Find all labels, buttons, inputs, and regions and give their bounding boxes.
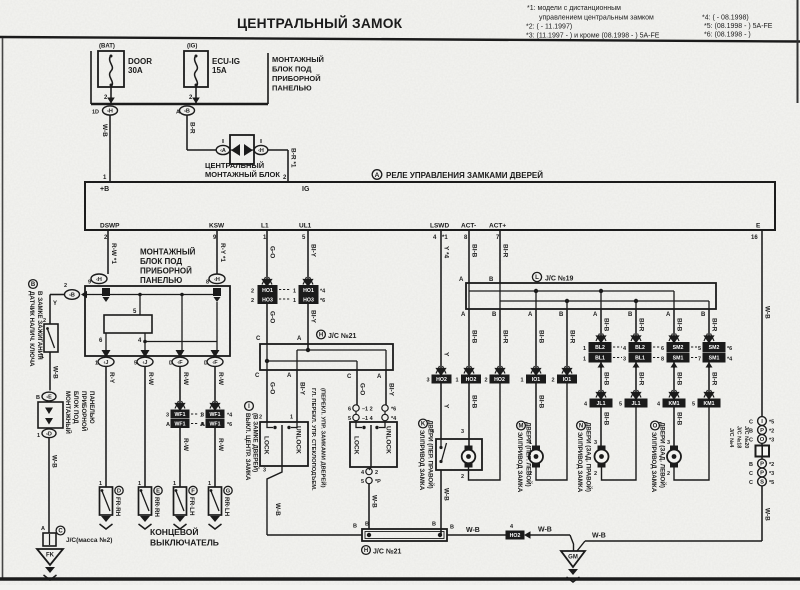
svg-text:Y *4: Y *4 <box>443 246 450 259</box>
svg-text:P: P <box>760 428 764 434</box>
wire W-B from lower jc to HO2 <box>447 534 506 536</box>
svg-text:2: 2 <box>461 474 464 480</box>
svg-text:HO2: HO2 <box>510 533 521 539</box>
junction block relay box <box>85 286 230 356</box>
connector pair SM2/SM1 col3 <box>667 343 689 352</box>
svg-text:C: C <box>749 420 753 426</box>
svg-text:BI-B: BI-B <box>538 330 545 344</box>
svg-text:P: P <box>760 471 764 477</box>
svg-text:ПРИБОРНОЙ: ПРИБОРНОЙ <box>140 267 192 276</box>
svg-text:J/C №4: J/C №4 <box>728 428 734 448</box>
svg-text:1: 1 <box>583 346 586 352</box>
svg-text:*4: ( - 08.1998): *4: ( - 08.1998) <box>702 15 749 22</box>
svg-text:3: 3 <box>427 378 430 384</box>
svg-text:ДВЕРИ (ПЕР. ЛЕВОЙ): ДВЕРИ (ПЕР. ЛЕВОЙ) <box>525 422 533 487</box>
svg-text:16: 16 <box>751 235 758 241</box>
svg-text:HO3: HO3 <box>262 297 273 303</box>
wire Y *4 LSWD <box>440 230 442 369</box>
svg-text:W-B: W-B <box>466 527 480 534</box>
svg-text:J/C №19: J/C №19 <box>545 275 574 283</box>
svg-text:BI-B: BI-B <box>676 372 683 386</box>
svg-text:J/C №18: J/C №18 <box>736 426 742 448</box>
svg-text:‹D: ‹D <box>46 431 52 437</box>
label K ЭЛ/ПРИВОД ЗАМКА ДВЕРИ (ПЕР. ПРАВОЙ) <box>419 419 428 428</box>
svg-text:B: B <box>559 312 564 318</box>
ground GM <box>561 551 585 567</box>
sensor B ДАТЧИК НАЛИЧ. КЛЮЧА В ЗАМКЕ ЗАЖИГАНИЯ label <box>29 280 38 289</box>
svg-text:БЛОК ПОД: БЛОК ПОД <box>272 65 312 74</box>
svg-text:UNLOCK: UNLOCK <box>295 426 302 454</box>
svg-text:3: 3 <box>667 440 670 446</box>
wire BI-B pair3 to KM1 <box>673 362 675 368</box>
wire W-B from lock switch <box>267 466 282 535</box>
junction connector J/C19 box <box>466 283 716 309</box>
svg-text:IO1: IO1 <box>563 377 571 383</box>
svg-text:БЛОК ПОД: БЛОК ПОД <box>72 391 79 424</box>
door lock control relay A box <box>85 182 775 230</box>
svg-text:–1 2: –1 2 <box>362 407 373 413</box>
svg-text:A: A <box>528 312 533 318</box>
svg-text:ACT-: ACT- <box>461 223 476 230</box>
svg-text:1: 1 <box>293 298 296 304</box>
svg-text:HO2: HO2 <box>466 377 477 383</box>
svg-text:*5: *5 <box>769 480 774 486</box>
motor M ЭЛ/ПРИВОД ЗАМКА ДВЕРИ ПЕР ЛЕВОЙ <box>532 446 540 468</box>
wire BI-R elbow to motor M <box>536 383 567 480</box>
svg-text:WF1: WF1 <box>175 412 186 418</box>
junction connector J/C21 box <box>260 344 393 370</box>
wire BI-R rear left col <box>708 309 710 336</box>
welded splice box right column <box>756 446 770 457</box>
svg-text:МОНТАЖНЫЙ: МОНТАЖНЫЙ <box>140 248 196 257</box>
wire R-W below WF1 rear-left <box>214 428 216 488</box>
svg-text:1: 1 <box>138 481 141 487</box>
svg-text:1: 1 <box>290 415 293 421</box>
svg-text:ЭЛ/ПРИВОД ЗАМКА: ЭЛ/ПРИВОД ЗАМКА <box>576 432 583 493</box>
svg-text:WF1: WF1 <box>210 422 221 428</box>
right page border <box>797 0 799 103</box>
bottom page border <box>0 577 800 580</box>
svg-text:*1: модели с дистанционным: *1: модели с дистанционным <box>527 5 621 12</box>
wire Y from connector B <box>50 294 65 296</box>
svg-text:A: A <box>201 422 205 428</box>
wire BI-B ACT- <box>468 230 470 283</box>
svg-text:A: A <box>593 312 598 318</box>
wire BI-B rear left col <box>673 309 675 336</box>
svg-text:WF1: WF1 <box>210 412 221 418</box>
ground FK <box>37 549 63 565</box>
svg-text:3: 3 <box>166 413 169 419</box>
svg-text:30A: 30A <box>128 66 143 75</box>
svg-text:KSW: KSW <box>209 223 225 230</box>
svg-text:W-B: W-B <box>52 366 59 379</box>
svg-text:P: P <box>760 462 764 468</box>
svg-text:K: K <box>421 422 426 428</box>
wire BI-B rear right col <box>600 309 602 336</box>
svg-text:БЛОК ПОД: БЛОК ПОД <box>140 257 182 266</box>
wire BI-B to motor O <box>673 407 675 446</box>
svg-text:BL2: BL2 <box>635 345 645 351</box>
svg-text:B: B <box>701 312 706 318</box>
svg-text:BI-R: BI-R <box>711 318 718 332</box>
svg-text:FR·LH: FR·LH <box>188 497 195 516</box>
svg-text:1: 1 <box>99 481 102 487</box>
svg-text:*3: (11.1997 - ) и кроме (08.1: *3: (11.1997 - ) и кроме (08.1998 - ) 5A… <box>526 33 660 40</box>
svg-text:LOCK: LOCK <box>263 436 270 455</box>
wire W-B below key sensor <box>49 352 51 391</box>
title rule <box>0 37 800 42</box>
svg-text:LOCK: LOCK <box>353 436 360 455</box>
svg-text:1: 1 <box>208 481 211 487</box>
wire B-R from ECU-IG to central block <box>186 115 188 150</box>
svg-text:A: A <box>287 373 292 379</box>
svg-text:BI-B: BI-B <box>471 244 478 258</box>
wire W-B from actuator K switch <box>440 470 442 535</box>
svg-text:C: C <box>58 529 63 535</box>
svg-text:R-W *1: R-W *1 <box>110 243 117 264</box>
svg-text:SM1: SM1 <box>673 356 684 362</box>
svg-text:W-B: W-B <box>764 306 771 319</box>
svg-text:(IG): (IG) <box>187 44 197 50</box>
svg-text:BI-R: BI-R <box>638 372 645 386</box>
svg-text:JL1: JL1 <box>597 401 606 407</box>
svg-text:IG: IG <box>302 186 310 193</box>
svg-text:‹J: ‹J <box>143 360 148 366</box>
bus line <box>91 103 268 106</box>
svg-text:‹H: ‹H <box>214 277 220 283</box>
svg-text:B-R *1: B-R *1 <box>290 148 297 168</box>
wire fuse2 to bus <box>195 87 197 104</box>
wire BI-Y to lock switch <box>296 370 298 422</box>
svg-text:D: D <box>117 489 121 495</box>
wire BI-R to connector 2 HO2 <box>499 309 501 369</box>
svg-text:HO2: HO2 <box>494 377 505 383</box>
svg-text:B: B <box>365 522 369 528</box>
wire Y to actuator K <box>440 383 442 439</box>
svg-text:BI-B: BI-B <box>603 412 610 426</box>
svg-text:L: L <box>535 274 539 281</box>
svg-text:E: E <box>756 223 761 230</box>
svg-text:ECU-IG: ECU-IG <box>212 57 240 66</box>
wire BI-B to motor M <box>535 383 537 446</box>
svg-text:C: C <box>749 480 753 486</box>
svg-text:(В ЗАМКЕ ДВЕРЕЙ): (В ЗАМКЕ ДВЕРЕЙ) <box>252 413 260 472</box>
svg-text:B: B <box>36 395 40 401</box>
svg-text:+B: +B <box>100 186 109 193</box>
svg-text:C: C <box>256 336 261 342</box>
svg-text:A: A <box>297 336 302 342</box>
wire BI-B to connector 1 HO2 <box>468 309 470 369</box>
svg-text:Y: Y <box>443 352 450 357</box>
wire R-W *1 DSWP <box>107 230 109 274</box>
svg-text:‹A: ‹A <box>220 148 226 154</box>
svg-text:МОНТАЖНЫЙ БЛОК: МОНТАЖНЫЙ БЛОК <box>205 170 280 179</box>
svg-text:BL2: BL2 <box>595 345 605 351</box>
svg-text:HO1: HO1 <box>262 288 273 294</box>
svg-text:7: 7 <box>698 357 701 363</box>
svg-text:ЭЛ/ПРИВОД ЗАМКА: ЭЛ/ПРИВОД ЗАМКА <box>418 430 425 491</box>
svg-text:A: A <box>375 172 380 179</box>
svg-text:BI-R: BI-R <box>711 372 718 386</box>
pin arrows bottom <box>102 350 111 358</box>
svg-text:H: H <box>364 548 368 554</box>
svg-text:SM2: SM2 <box>673 345 684 351</box>
svg-text:L1: L1 <box>261 223 269 230</box>
svg-text:1D: 1D <box>92 110 99 116</box>
wire BI-R elbow to actuator K motor <box>469 383 501 480</box>
svg-text:KM1: KM1 <box>704 401 715 407</box>
svg-text:1: 1 <box>583 357 586 363</box>
svg-text:R-W: R-W <box>217 372 224 386</box>
svg-text:G: G <box>226 489 231 495</box>
svg-text:W-B: W-B <box>371 495 378 508</box>
master switch box <box>356 404 358 405</box>
svg-text:1: 1 <box>173 481 176 487</box>
svg-text:2: 2 <box>251 289 254 295</box>
svg-text:*6: *6 <box>227 422 232 428</box>
svg-text:B: B <box>432 522 436 528</box>
wire BI-Y from UL1 <box>307 230 309 281</box>
svg-text:2: 2 <box>251 298 254 304</box>
motor in actuator K <box>465 446 473 468</box>
svg-text:BL1: BL1 <box>595 356 605 362</box>
svg-text:W-B: W-B <box>274 503 281 516</box>
svg-text:(ПЕРЕКЛ. УПР. ЗАМКАМИ ДВЕРЕЙ): (ПЕРЕКЛ. УПР. ЗАМКАМИ ДВЕРЕЙ) <box>320 388 328 488</box>
svg-text:BI-Y: BI-Y <box>310 244 317 258</box>
svg-text:*5: *5 <box>769 420 774 426</box>
internal wiring of relay box <box>87 294 217 296</box>
wire BI-R pair4 to KM1 <box>708 362 710 368</box>
wire BI-B pair1 to JL1 <box>600 362 602 368</box>
svg-text:ГЛ. ПЕРЕКЛ. УПР. СТЕКЛОПОДЪЕМ.: ГЛ. ПЕРЕКЛ. УПР. СТЕКЛОПОДЪЕМ. <box>310 388 316 491</box>
wire BI-R pair2 to JL1 <box>635 362 637 368</box>
svg-text:GM: GM <box>568 555 578 561</box>
svg-text:W-B: W-B <box>592 533 606 540</box>
svg-text:РЕЛЕ УПРАВЛЕНИЯ ЗАМКАМИ ДВЕРЕЙ: РЕЛЕ УПРАВЛЕНИЯ ЗАМКАМИ ДВЕРЕЙ <box>386 171 543 180</box>
connector pair HO1/HO3 right <box>299 286 318 295</box>
connector pair WF1 front-left <box>175 401 185 410</box>
svg-text:B: B <box>492 312 497 318</box>
wire W-B from fuse DOOR to +B <box>109 115 111 182</box>
connector pair WF1 rear-left <box>210 401 220 410</box>
svg-text:2: 2 <box>375 470 378 476</box>
svg-text:BL1: BL1 <box>635 356 645 362</box>
svg-text:KM1: KM1 <box>669 401 680 407</box>
svg-text:3: 3 <box>201 413 204 419</box>
wire R-Y to FR-RH switch <box>105 366 107 487</box>
svg-text:ПРИБОРНОЙ: ПРИБОРНОЙ <box>272 74 321 83</box>
connector pair SM2/SM1 col4 <box>703 343 725 352</box>
svg-text:WF1: WF1 <box>175 422 186 428</box>
svg-text:DOOR: DOOR <box>128 57 152 66</box>
svg-text:SM1: SM1 <box>709 356 720 362</box>
svg-text:6: 6 <box>661 346 664 352</box>
label I ВЫКЛ. ЦЕНТР. ЗАМКА (В ЗАМКЕ ДВЕРЕЙ) <box>245 402 254 411</box>
svg-text:HO2: HO2 <box>436 377 447 383</box>
wire R-W to RR-RH switch <box>144 366 146 487</box>
svg-text:ДАТЧИК НАЛИЧ. КЛЮЧА: ДАТЧИК НАЛИЧ. КЛЮЧА <box>28 291 35 367</box>
pin squares top <box>102 288 110 296</box>
svg-text:‹B: ‹B <box>69 293 75 299</box>
motor O ЭЛ/ПРИВОД ЗАМКА ДВЕРИ ЗАД ЛЕВОЙ <box>670 446 678 468</box>
label A РЕЛЕ УПРАВЛЕНИЯ ЗАМКАМИ ДВЕРЕЙ <box>372 170 382 180</box>
svg-text:1: 1 <box>293 289 296 295</box>
svg-text:*6: *6 <box>727 346 732 352</box>
wire W-B to ground JC <box>48 438 50 533</box>
svg-text:2: 2 <box>259 415 262 421</box>
svg-text:5: 5 <box>619 402 622 408</box>
svg-text:8: 8 <box>661 357 664 363</box>
svg-text:‹E: ‹E <box>46 395 52 401</box>
svg-text:BI-B: BI-B <box>676 412 683 426</box>
svg-text:FR·RH: FR·RH <box>114 497 121 517</box>
svg-text:F: F <box>191 489 195 495</box>
svg-text:A: A <box>377 374 382 380</box>
svg-text:ДВЕРИ (ЗАД. ПРАВОЙ): ДВЕРИ (ЗАД. ПРАВОЙ) <box>585 422 593 492</box>
svg-text:BI-B: BI-B <box>603 372 610 386</box>
svg-text:МОНТАЖНЫЙ: МОНТАЖНЫЙ <box>64 391 72 434</box>
motor N ЭЛ/ПРИВОД ЗАМКА ДВЕРИ ЗАД ПРАВОЙ <box>598 446 606 468</box>
svg-text:RR·RH: RR·RH <box>153 497 160 517</box>
svg-text:BI-B: BI-B <box>676 318 683 332</box>
svg-text:B: B <box>353 524 357 530</box>
wire R-W to WF1 pair front-left <box>179 366 181 404</box>
svg-text:*6: *6 <box>320 298 325 304</box>
svg-text:BI-Y: BI-Y <box>310 310 317 324</box>
svg-text:W-B: W-B <box>51 455 58 468</box>
svg-text:S: S <box>760 480 764 486</box>
svg-text:B: B <box>749 462 753 468</box>
svg-text:ДВЕРИ (ПЕР. ПРАВОЙ): ДВЕРИ (ПЕР. ПРАВОЙ) <box>427 420 435 489</box>
svg-text:Y: Y <box>443 404 450 409</box>
label H J/C №21 <box>317 330 326 339</box>
svg-text:C: C <box>255 373 260 379</box>
svg-text:M: M <box>519 424 524 430</box>
wire W-B from master switch <box>369 467 371 470</box>
svg-text:ACT+: ACT+ <box>489 223 506 230</box>
svg-text:W-B: W-B <box>538 527 552 534</box>
svg-text:2: 2 <box>594 471 597 477</box>
wire BI-R rear right col <box>635 309 637 336</box>
svg-text:ДВЕРИ (ЗАД. ЛЕВОЙ): ДВЕРИ (ЗАД. ЛЕВОЙ) <box>659 422 667 488</box>
wire BI-R elbow to motor N <box>602 407 637 480</box>
wire BI-B to motor N <box>600 407 602 446</box>
svg-text:O: O <box>760 437 765 443</box>
svg-text:DSWP: DSWP <box>100 223 120 230</box>
svg-text:O: O <box>653 424 658 430</box>
svg-text:B: B <box>31 282 36 288</box>
svg-text:*6: *6 <box>391 407 396 413</box>
svg-text:BI-Y: BI-Y <box>388 383 395 397</box>
svg-text:N: N <box>579 424 583 430</box>
wire BI-B to actuator K motor <box>468 383 470 450</box>
pass-through block МОНТАЖНЫЙ БЛОК ПОД ПРИБОРНОЙ ПАНЕЛЬЮ (left) <box>38 402 63 428</box>
svg-text:B-R: B-R <box>189 122 196 134</box>
svg-text:A: A <box>666 312 671 318</box>
wire fuse1 to bus <box>110 87 112 104</box>
central junction block diode box <box>216 145 230 154</box>
svg-text:BI-B: BI-B <box>538 395 545 409</box>
svg-text:C: C <box>749 438 753 444</box>
wire W-B horizontal into lower jc <box>267 534 362 536</box>
svg-text:B: B <box>749 429 753 435</box>
svg-text:МОНТАЖНЫЙ: МОНТАЖНЫЙ <box>272 55 324 64</box>
svg-text:BI-R: BI-R <box>502 330 509 344</box>
wire R-W to WF1 pair rear-left <box>214 366 216 404</box>
svg-text:2: 2 <box>552 378 555 384</box>
svg-text:2: 2 <box>64 283 67 289</box>
svg-text:BI-Y: BI-Y <box>299 382 306 396</box>
junction connector J/C21 lower box <box>362 529 447 541</box>
wire R-W below WF1 front-left <box>179 428 181 488</box>
wire BI-Y to master switch <box>385 370 387 404</box>
svg-text:‹H: ‹H <box>258 148 264 154</box>
svg-text:5: 5 <box>692 402 695 408</box>
svg-text:A: A <box>166 422 170 428</box>
svg-text:BI-B: BI-B <box>603 318 610 332</box>
svg-text:1: 1 <box>521 378 524 384</box>
svg-text:Y: Y <box>53 301 57 307</box>
svg-text:ЭЛ/ПРИВОД ЗАМКА: ЭЛ/ПРИВОД ЗАМКА <box>516 432 523 493</box>
svg-text:6: 6 <box>348 407 351 413</box>
wire B-R *1 to IG pin <box>268 149 289 151</box>
svg-text:*3: *3 <box>769 438 774 444</box>
svg-text:BI-R: BI-R <box>638 318 645 332</box>
svg-text:B: B <box>450 525 454 531</box>
svg-text:*5: (08.1998 - ) 5A-FE: *5: (08.1998 - ) 5A-FE <box>704 23 773 30</box>
svg-text:ПАНЕЛЬЮ: ПАНЕЛЬЮ <box>140 276 182 285</box>
svg-text:BI-R: BI-R <box>569 330 576 344</box>
svg-text:H: H <box>319 333 323 339</box>
svg-text:BI-R: BI-R <box>502 244 509 258</box>
svg-text:*2: *2 <box>769 429 774 435</box>
label L J/C №19 <box>532 272 541 281</box>
svg-text:ПРИБОРНОЙ: ПРИБОРНОЙ <box>80 391 88 432</box>
svg-text:ПАНЕЛЬЮ: ПАНЕЛЬЮ <box>272 84 312 93</box>
svg-text:E: E <box>156 489 160 495</box>
svg-text:R-W: R-W <box>147 372 154 386</box>
svg-text:IO1: IO1 <box>532 377 540 383</box>
svg-text:(BAT): (BAT) <box>99 44 115 50</box>
svg-text:1: 1 <box>41 354 44 360</box>
svg-text:3: 3 <box>461 429 464 435</box>
svg-text:G-O: G-O <box>269 311 276 323</box>
svg-text:3: 3 <box>623 357 626 363</box>
svg-text:R-W: R-W <box>182 372 189 386</box>
svg-text:SM2: SM2 <box>709 345 720 351</box>
svg-text:3: 3 <box>263 468 266 474</box>
svg-text:2: 2 <box>667 471 670 477</box>
svg-text:управлением центральным замком: управлением центральным замком <box>539 15 654 22</box>
svg-text:ВЫКЛЮЧАТЕЛЬ: ВЫКЛЮЧАТЕЛЬ <box>150 538 219 548</box>
svg-text:A: A <box>461 312 466 318</box>
svg-text:J/C(масса №2): J/C(масса №2) <box>66 537 112 544</box>
svg-text:J/C №21: J/C №21 <box>373 548 402 556</box>
svg-text:В ЗАМКЕ ЗАЖИГАНИЯ: В ЗАМКЕ ЗАЖИГАНИЯ <box>36 291 43 360</box>
svg-text:C: C <box>749 471 753 477</box>
svg-text:G-O: G-O <box>269 246 276 258</box>
svg-text:FK: FK <box>46 553 55 559</box>
svg-text:W-B: W-B <box>443 488 450 501</box>
svg-text:‹F: ‹F <box>212 360 218 366</box>
svg-text:ПАНЕЛЬЮ: ПАНЕЛЬЮ <box>88 391 95 424</box>
left page border <box>2 38 4 579</box>
wire W-B from ground to HO2 <box>531 534 571 536</box>
wire BI-R elbow to motor O <box>674 407 709 480</box>
svg-text:A: A <box>459 277 464 283</box>
svg-text:2: 2 <box>485 378 488 384</box>
svg-text:‹B: ‹B <box>184 109 190 115</box>
